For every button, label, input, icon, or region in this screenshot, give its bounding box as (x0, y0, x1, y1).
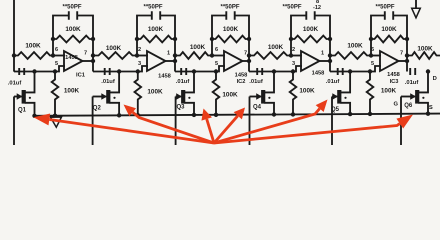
svg-text:Q3: Q3 (176, 105, 185, 111)
svg-text:1458: 1458 (312, 71, 325, 77)
capacitor **50PF stage 3 (226, 11, 234, 20)
op-amp stage 1 (1458) (64, 51, 93, 71)
svg-text:100K: 100K (223, 26, 239, 33)
wire inverting input stage 4 (291, 55, 302, 57)
wire output rail stage 3 (247, 39, 251, 72)
wire non-inverting input stage 3 (175, 66, 225, 72)
svg-text:Q4: Q4 (253, 105, 262, 111)
wire inverting input stage 2 (137, 55, 148, 57)
transistor Q6 (401, 69, 430, 145)
label pin 8 (316, 0, 319, 5)
svg-text:Q2: Q2 (93, 106, 102, 112)
svg-text:IC2: IC2 (237, 79, 246, 85)
label IC2 (237, 79, 246, 85)
svg-text:100K: 100K (347, 43, 363, 50)
label 100K feedback stage 5 (381, 26, 397, 33)
resistor 100K series stage 4-5 (330, 52, 371, 59)
svg-text:5: 5 (55, 61, 58, 67)
svg-text:Q6: Q6 (404, 103, 413, 109)
wire output rail stage 5 (405, 39, 409, 72)
capacitor **50PF stage 2 (152, 11, 160, 20)
label 100K series 1 (25, 43, 41, 50)
label 100K feedback stage 4 (303, 26, 319, 33)
wire non-inverting input stage 5 (330, 66, 381, 72)
svg-text:**50PF: **50PF (282, 4, 301, 10)
label 1458 stage 2 (158, 74, 171, 80)
label 100K feedback stage 1 (65, 26, 81, 33)
label 100K series 2 (106, 45, 122, 52)
label .01uf C6 (405, 80, 419, 86)
wire output rail stage 1 (91, 39, 95, 72)
svg-text:Q1: Q1 (18, 108, 27, 114)
svg-text:5: 5 (215, 61, 218, 67)
label 100K feedback stage 3 (223, 26, 239, 33)
label .01uf C5 (326, 79, 340, 85)
wire inverting node stage 1 (51, 39, 55, 58)
svg-text:.01uf: .01uf (326, 79, 340, 85)
label Q5 (331, 107, 340, 113)
transistor Q3 (176, 69, 197, 145)
pin 6 stage 3 (215, 47, 218, 53)
label IC3 (390, 79, 399, 85)
svg-text:7: 7 (84, 51, 87, 57)
svg-text:2: 2 (138, 47, 141, 53)
resistor 100K series stage 1-2 (93, 52, 137, 59)
red arrow to Q6 (214, 115, 413, 144)
svg-text:G: G (394, 102, 399, 108)
resistor 100K series stage 3-4 (249, 52, 291, 59)
pin 5 stage 1 (55, 61, 58, 67)
transistor Q4 (250, 69, 277, 145)
capacitor **50PF stage 5 (385, 11, 393, 20)
svg-text:100K: 100K (65, 26, 81, 33)
label **50PF stage 5 (375, 4, 394, 10)
svg-text:1458: 1458 (158, 74, 171, 80)
label Q4 (253, 105, 262, 111)
pin 1 stage 2 (167, 51, 170, 57)
svg-text:.01uf: .01uf (405, 80, 419, 86)
pin 3 stage 2 (138, 61, 141, 67)
svg-text:100K: 100K (148, 26, 164, 33)
wire 50pF loop stage 4 (291, 16, 330, 41)
label 1458 stage 1 (65, 55, 78, 61)
svg-text:100K: 100K (222, 92, 238, 99)
svg-text:100K: 100K (381, 88, 397, 95)
label Q6 (404, 103, 413, 109)
wire inverting node stage 2 (135, 39, 139, 58)
wire inverting node stage 4 (289, 39, 293, 58)
pin 6 stage 1 (55, 47, 58, 53)
red arrow to Q2 (124, 105, 215, 144)
label S (source Q6) (429, 105, 433, 111)
wire bottom rail (34, 114, 440, 116)
red arrow to Q4 (214, 108, 245, 144)
capacitor .01uf C6 (410, 68, 415, 75)
wire inverting node stage 5 (369, 39, 373, 58)
wire input rail (12, 0, 16, 72)
svg-text:3: 3 (292, 61, 295, 67)
label .01uf C4 (249, 79, 263, 85)
resistor 100K feedback stage 1 (51, 36, 95, 43)
svg-text:100K: 100K (303, 26, 319, 33)
label IC1 (76, 72, 86, 78)
label 100K series 5 (347, 43, 363, 50)
capacitor .01uf C4 (257, 68, 262, 75)
label **50PF stage 1 (62, 4, 81, 10)
wire inverting node stage 3 (210, 39, 214, 58)
label 100K shunt stage 5 (381, 88, 397, 95)
wire non-inverting input stage 2 (93, 66, 148, 72)
resistor 100K shunt stage 5 (367, 69, 374, 116)
pin 3 stage 4 (292, 61, 295, 67)
label Q1 (18, 108, 27, 114)
capacitor **50PF stage 1 (69, 11, 77, 20)
resistor 100K series stage 2-3 (175, 52, 212, 59)
node stage-1 input corner (13, 70, 16, 73)
svg-text:.01uf: .01uf (101, 79, 115, 85)
capacitor .01uf C2 (105, 68, 110, 75)
label **50PF stage 4 (282, 4, 301, 10)
wire output rail stage 4 (328, 39, 332, 72)
resistor 100K feedback stage 2 (135, 36, 177, 43)
wire 50pF loop stage 3 (212, 16, 249, 41)
op-amp stage 3 (1458) (224, 51, 249, 71)
resistor 100K feedback stage 3 (210, 36, 251, 43)
svg-text:100K: 100K (381, 26, 397, 33)
svg-text:IC1: IC1 (76, 72, 86, 78)
svg-text:6: 6 (55, 47, 58, 53)
transistor Q2 (93, 69, 122, 145)
svg-text:**50PF: **50PF (143, 4, 162, 10)
svg-text:5: 5 (371, 61, 374, 67)
svg-text:**50PF: **50PF (375, 4, 394, 10)
pin 7 stage 1 (84, 51, 87, 57)
resistor 100K series output (407, 52, 440, 59)
label 100K shunt stage 3 (222, 92, 238, 99)
wire 50pF loop stage 2 (137, 16, 175, 41)
svg-text:1458: 1458 (387, 72, 400, 78)
label 100K feedback stage 2 (148, 26, 164, 33)
svg-text:.01uf: .01uf (8, 81, 22, 87)
wire inverting input stage 1 (53, 55, 65, 57)
capacitor .01uf C1 (19, 68, 24, 75)
svg-text:100K: 100K (64, 88, 80, 95)
wire output rail stage 2 (173, 39, 177, 72)
svg-text:IC3: IC3 (390, 79, 399, 85)
pin 7 stage 3 (244, 51, 247, 57)
svg-text:S: S (429, 105, 433, 111)
svg-text:1: 1 (321, 51, 324, 57)
svg-text:1: 1 (167, 51, 170, 57)
label Q2 (93, 106, 102, 112)
svg-text:1458: 1458 (65, 55, 78, 61)
label 1458 stage 3 (235, 73, 248, 79)
red arrow to Q1 (34, 114, 215, 143)
pin 2 stage 4 (292, 47, 295, 53)
resistor 100K feedback stage 5 (369, 36, 409, 43)
capacitor **50PF stage 4 (306, 11, 314, 20)
label 100K shunt stage 4 (299, 88, 315, 95)
svg-text:7: 7 (244, 51, 247, 57)
svg-text:1458: 1458 (235, 73, 248, 79)
label **50PF stage 3 (220, 4, 239, 10)
label .01uf C1 (8, 81, 22, 87)
svg-text:100K: 100K (417, 46, 433, 53)
red arrow to Q3 (201, 109, 214, 144)
wire non-inverting input stage 1 (14, 66, 65, 72)
op-amp stage 4 (1458) (301, 51, 330, 71)
label 100K series 6 (417, 46, 433, 53)
pin 1 stage 4 (321, 51, 324, 57)
wire 50pF loop stage 5 (371, 16, 407, 41)
label D (drain Q6) (433, 76, 437, 82)
capacitor .01uf C5 (338, 68, 343, 75)
resistor 100K shunt stage 1 (52, 69, 59, 118)
wire inverting input stage 3 (212, 55, 225, 57)
pin 2 stage 2 (138, 47, 141, 53)
label .01uf C2 (101, 79, 115, 85)
off-page arrow (412, 0, 421, 18)
svg-text:100K: 100K (25, 43, 41, 50)
svg-text:6: 6 (215, 47, 218, 53)
ground (51, 116, 62, 128)
svg-text:7: 7 (400, 51, 403, 57)
wire non-inverting input stage 4 (249, 66, 302, 72)
op-amp stage 5 (1458) (380, 51, 407, 71)
svg-text:2: 2 (292, 47, 295, 53)
resistor 100K shunt stage 4 (290, 69, 297, 116)
label Q3 (176, 105, 185, 111)
svg-text:6: 6 (371, 47, 374, 53)
label 1458 stage 4 (312, 71, 325, 77)
label 100K shunt stage 1 (64, 88, 80, 95)
svg-text:100K: 100K (106, 45, 122, 52)
svg-text:100K: 100K (190, 44, 206, 51)
svg-text:100K: 100K (268, 44, 284, 51)
pin 5 stage 5 (371, 61, 374, 67)
label **50PF stage 2 (143, 4, 162, 10)
pin 7 stage 5 (400, 51, 403, 57)
label 100K shunt stage 2 (147, 89, 163, 96)
red arrow to Q5 (214, 100, 328, 144)
resistor 100K series input (14, 52, 53, 59)
pin 5 stage 3 (215, 61, 218, 67)
resistor 100K shunt stage 3 (213, 69, 220, 117)
transistor Q1 (14, 69, 37, 145)
label .01uf C3 (176, 79, 190, 85)
label -12 supply (313, 5, 321, 11)
capacitor .01uf C3 (181, 68, 186, 75)
label 100K series 3 (190, 44, 206, 51)
svg-text:100K: 100K (299, 88, 315, 95)
label G (gate Q6) (394, 102, 399, 108)
wire inverting input stage 5 (371, 55, 381, 57)
svg-text:**50PF: **50PF (62, 4, 81, 10)
svg-text:**50PF: **50PF (220, 4, 239, 10)
svg-text:100K: 100K (147, 89, 163, 96)
svg-text:Q5: Q5 (331, 107, 340, 113)
resistor 100K shunt stage 2 (135, 69, 142, 117)
svg-text:D: D (433, 76, 437, 82)
svg-text:3: 3 (138, 61, 141, 67)
resistor 100K feedback stage 4 (289, 36, 332, 43)
op-amp stage 2 (1458) (147, 51, 175, 71)
transistor Q5 (332, 69, 352, 145)
label 1458 stage 5 (387, 72, 400, 78)
pin 6 stage 5 (371, 47, 374, 53)
label 100K series 4 (268, 44, 284, 51)
svg-text:.01uf: .01uf (176, 79, 190, 85)
svg-text:-12: -12 (313, 5, 321, 11)
svg-text:.01uf: .01uf (249, 79, 263, 85)
wire 50pF loop stage 1 (53, 16, 93, 41)
